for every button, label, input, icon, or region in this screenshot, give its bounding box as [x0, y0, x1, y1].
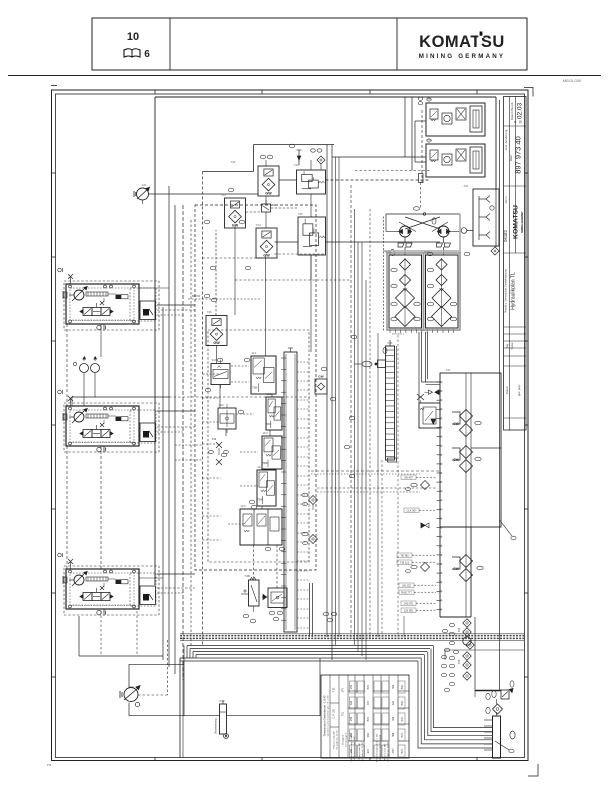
thermostat valve TV — [417, 390, 439, 403]
drawing frame outer — [51, 86, 528, 761]
svg-text:B7C: B7C — [367, 716, 370, 721]
vertical right trunk — [475, 100, 500, 704]
pilot valve small =1 — [262, 200, 277, 216]
bucket cylinder assembly A3 directional valve — [80, 583, 113, 601]
main spool section S4 — [257, 470, 276, 506]
svg-text:Norm: Norm — [504, 196, 508, 204]
svg-text:CLP 100: CLP 100 — [333, 709, 336, 719]
svg-text:GW: GW — [263, 254, 270, 258]
arm cylinder assembly A2 boundary — [64, 403, 159, 452]
svg-text:10.4: 10.4 — [257, 465, 263, 469]
title block revision text — [504, 102, 524, 151]
svg-text:Hydraulikplan TL: Hydraulikplan TL — [511, 272, 517, 310]
return filter F4 — [206, 316, 227, 346]
arm cylinder assembly A2 drain symbol — [97, 447, 106, 453]
coupling drain diamond — [491, 247, 499, 255]
table cell texts — [350, 684, 404, 762]
main pump P1 — [134, 187, 150, 204]
svg-text:4.01: 4.01 — [141, 183, 147, 187]
svg-text:S6C: S6C — [367, 732, 370, 737]
main schematic boundary — [155, 97, 496, 645]
svg-text:RUE 777: RUE 777 — [401, 591, 412, 595]
svg-text:a51 grade teh. 74 150: a51 grade teh. 74 150 — [387, 741, 390, 761]
control block inner dashed boundary — [208, 330, 309, 562]
svg-text:MB/KW: MB/KW — [192, 295, 201, 298]
vertical manifold bus — [281, 348, 297, 632]
pressure control valve V2 — [298, 217, 326, 255]
svg-text:5.01: 5.01 — [385, 250, 391, 254]
svg-text:10.2: 10.2 — [266, 392, 272, 396]
filler breather diamond — [486, 693, 503, 714]
svg-text:B7C: B7C — [401, 748, 404, 753]
svg-text:10: 10 — [127, 31, 139, 43]
svg-text:sector fan spec eng. T 840: sector fan spec eng. T 840 — [353, 735, 356, 759]
check valve D1 — [302, 493, 318, 510]
oil specification table — [321, 675, 409, 758]
boom cylinder assembly A1 pilot actuator — [130, 288, 156, 321]
svg-text:A5H: A5H — [392, 748, 395, 753]
breather valve — [492, 681, 514, 699]
svg-text:GW: GW — [453, 458, 459, 462]
svg-text:MB15-050: MB15-050 — [563, 78, 582, 83]
return filter F2 — [225, 198, 246, 228]
book icon with 6 — [124, 49, 150, 60]
fan section boundary — [383, 214, 460, 332]
title block — [504, 97, 527, 431]
svg-text:2.02: 2.02 — [426, 138, 432, 142]
pilot reducing valve PR1 — [211, 360, 230, 389]
bucket cylinder assembly A3 boundary — [64, 566, 159, 615]
arm cylinder assembly A2 main block — [66, 406, 139, 446]
svg-text:GW: GW — [265, 192, 272, 196]
hatched pipe band — [180, 634, 524, 641]
boom cylinder assembly A1 cylinder bar — [86, 292, 128, 299]
svg-text:GW: GW — [213, 341, 220, 345]
check valve D2 — [302, 532, 318, 544]
svg-text:Wkanalyseabelzung -1 040r: Wkanalyseabelzung -1 040r — [350, 734, 353, 761]
control block outer dashed boundary — [195, 205, 316, 570]
pump P1 discharge line — [149, 193, 259, 195]
suction strainer SS2 — [452, 445, 481, 473]
check valve manifold CV2 — [424, 253, 461, 330]
suction strainer SS3 — [452, 554, 483, 582]
svg-text:718 121: 718 121 — [400, 561, 410, 565]
svg-text:B7C: B7C — [367, 684, 370, 689]
svg-text:V46: V46 — [350, 716, 353, 721]
komatsu vertical logo — [503, 205, 524, 242]
svg-text:7.03: 7.03 — [220, 193, 226, 197]
svg-text:GW: GW — [453, 422, 459, 426]
svg-text:B7C: B7C — [401, 732, 404, 737]
svg-text:Pluema mazk SM: Pluema mazk SM — [334, 731, 336, 748]
lines pump groups to left — [332, 110, 430, 209]
check diamond above V1 — [311, 149, 325, 170]
svg-text:TDK: TDK — [262, 461, 267, 465]
svg-text:GW: GW — [232, 224, 239, 228]
assembly2 connection lines — [72, 397, 310, 460]
oil cooler ladder — [386, 340, 397, 462]
title block lower rows — [504, 334, 527, 396]
corner mark bottom right — [47, 763, 538, 776]
boom cylinder assembly A1 drain symbol — [97, 325, 106, 331]
bucket cylinder assembly A3 port label — [58, 553, 63, 557]
arm cylinder assembly A2 port label — [58, 390, 63, 394]
pilot dashed rows — [203, 254, 437, 492]
bucket cylinder assembly A3 lever symbol — [100, 586, 104, 590]
inter-assembly vertical links — [67, 324, 101, 569]
svg-text:Gefolgeerl: Gefolgeerl — [342, 734, 345, 745]
fan motor M2 — [437, 226, 451, 247]
svg-text:897 973 40: 897 973 40 — [514, 136, 523, 174]
svg-text:H68: H68 — [392, 732, 395, 737]
table header texts — [323, 687, 365, 762]
bottom left routing — [129, 640, 320, 716]
svg-text:MINING GERMANY: MINING GERMANY — [419, 53, 506, 60]
svg-text:10.1: 10.1 — [251, 351, 257, 355]
svg-text:Datum Bearb.: Datum Bearb. — [510, 102, 514, 121]
hydraulic tank box — [440, 373, 501, 617]
svg-text:B5C: B5C — [401, 700, 404, 705]
cooler outlet lines — [419, 332, 440, 403]
svg-text:Datum: Datum — [505, 385, 509, 394]
svg-text:7.06: 7.06 — [206, 310, 212, 314]
svg-text:7.05: 7.05 — [297, 212, 303, 216]
svg-text:TM: TM — [47, 763, 52, 767]
main spool section S3 — [262, 436, 282, 469]
main spool section S1 — [251, 356, 276, 394]
assembly1 connection lines — [139, 288, 260, 315]
horizontal lines top area — [216, 160, 440, 316]
svg-text:7.08: 7.08 — [244, 574, 250, 578]
svg-text:Produkt u. Kennzeichen Gewaehr: Produkt u. Kennzeichen Gewaehrleistung — [505, 268, 508, 313]
arm cylinder assembly A2 hand pump — [63, 409, 87, 424]
frame tick marks — [52, 90, 529, 761]
svg-text:Tag: Tag — [505, 343, 509, 348]
tiny annotations — [129, 97, 469, 703]
main spool section S2 — [266, 397, 282, 430]
svg-text:7.02: 7.02 — [293, 163, 299, 167]
centre cluster connector stubs right — [297, 362, 310, 628]
page number 10 — [127, 31, 139, 43]
fan circuit crossover lines — [386, 207, 467, 256]
scattered component labels top — [204, 144, 470, 478]
svg-text:H46: H46 — [392, 716, 395, 721]
svg-text:6: 6 — [144, 49, 150, 60]
boom cylinder assembly A1 boundary — [64, 281, 159, 330]
svg-text:2.01: 2.01 — [426, 97, 432, 101]
tank inlet pins — [437, 381, 442, 610]
bus risers right — [445, 650, 524, 660]
check valve manifold CV1 — [387, 253, 424, 330]
svg-text:Temperatur Hydraulik OL -1 040: Temperatur Hydraulik OL -1 040 — [376, 733, 379, 762]
svg-text:MINING GERMANY: MINING GERMANY — [521, 211, 524, 233]
main spool section S5 — [240, 509, 282, 545]
svg-text:8.02: 8.02 — [219, 699, 225, 703]
boom cylinder assembly A1 main block — [66, 284, 139, 324]
bucket cylinder assembly A3 cylinder bar — [86, 577, 128, 584]
svg-text:9.02: 9.02 — [218, 403, 224, 407]
fan pump group FP2 — [426, 139, 485, 177]
svg-text:10.5: 10.5 — [240, 504, 246, 508]
suction strainer SS1 — [452, 409, 481, 437]
svg-text:CLK 907: CLK 907 — [406, 509, 417, 513]
svg-text:TDK: TDK — [257, 498, 262, 502]
boom cylinder assembly A1 port label — [58, 268, 63, 272]
KOMATSU logo — [419, 32, 506, 61]
svg-text:T01: T01 — [342, 711, 345, 716]
svg-text:10.3: 10.3 — [262, 431, 268, 435]
centre cluster connector stubs left — [203, 366, 259, 540]
quick coupling box — [473, 189, 499, 246]
svg-text:S15: S15 — [458, 659, 461, 664]
bottom bus lines — [187, 646, 493, 749]
svg-text:3.01: 3.01 — [463, 184, 469, 188]
arm cylinder assembly A2 vent valve — [68, 396, 73, 406]
return filter F1 — [258, 166, 279, 196]
long pilot dashed line — [311, 471, 440, 474]
bucket cylinder assembly A3 drain symbol — [97, 610, 106, 616]
svg-text:B6C: B6C — [401, 684, 404, 689]
svg-text:Pluema mazk SM: Pluema mazk SM — [385, 744, 387, 760]
svg-text:S4C: S4C — [401, 716, 404, 721]
bypass valve GW5 — [315, 375, 327, 395]
svg-text:gez. gepr.: gez. gepr. — [517, 384, 521, 397]
accumulator ACC — [214, 700, 229, 738]
transfer pump P2 — [120, 686, 140, 707]
svg-text:TDK: TDK — [252, 385, 257, 389]
svg-text:126 981: 126 981 — [404, 609, 414, 613]
svg-text:high ae51 temperature t angl: high ae51 temperature t angl — [379, 735, 382, 761]
assembly3 connection lines — [139, 574, 195, 593]
tank port labels — [397, 475, 436, 613]
bucket cylinder assembly A3 pilot actuator — [130, 573, 156, 606]
arm cylinder assembly A2 pilot actuator — [130, 410, 156, 443]
header box — [92, 18, 527, 70]
svg-text:7.01: 7.01 — [230, 160, 236, 164]
svg-text:KOMATSU: KOMATSU — [513, 205, 520, 239]
svg-text:GW: GW — [318, 375, 323, 379]
chain labels — [441, 623, 461, 692]
svg-text:a: a — [513, 121, 517, 123]
manifold bottom ports — [390, 330, 454, 336]
twin gauge circles — [73, 357, 99, 373]
return filter tower — [484, 712, 515, 758]
table enclosure box — [180, 658, 421, 758]
svg-text:A22: A22 — [392, 700, 395, 705]
fan motor M1 — [398, 226, 412, 247]
svg-text:1.01: 1.01 — [445, 368, 451, 372]
header rule — [8, 76, 601, 84]
section interconnect verticals — [220, 385, 277, 589]
svg-text:JAS 871: JAS 871 — [404, 602, 414, 606]
filter drop lines — [217, 255, 312, 364]
svg-text:KOMATSU: KOMATSU — [419, 33, 505, 51]
boom cylinder assembly A1 vent valve — [68, 274, 73, 284]
svg-text:02.03: 02.03 — [517, 102, 524, 119]
tank midline diamonds — [406, 481, 430, 573]
breather feed line — [475, 690, 501, 692]
tank internal line — [465, 373, 467, 617]
svg-text:Zust. Aenderung: Zust. Aenderung — [504, 129, 508, 150]
fan pump group FP1 — [426, 98, 485, 136]
drawing number — [504, 136, 523, 203]
svg-text:6.01: 6.01 — [387, 341, 393, 345]
svg-text:SP1: SP1 — [342, 687, 345, 692]
svg-text:06182: 06182 — [503, 230, 508, 242]
svg-text:5.02: 5.02 — [424, 250, 430, 254]
svg-text:Name: Name — [510, 342, 514, 349]
boom cylinder assembly A1 hand pump — [63, 287, 87, 302]
bucket cylinder assembly A3 hand pump — [63, 572, 87, 587]
svg-text:K13: K13 — [212, 438, 217, 441]
svg-text:SN 123: SN 123 — [402, 584, 411, 588]
boom cylinder assembly A1 directional valve — [80, 298, 113, 316]
svg-text:T 32: T 32 — [333, 687, 336, 692]
svg-text:Temperatur Getriebeoel -1 040: Temperatur Getriebeoel -1 040 — [323, 695, 327, 736]
boom cylinder assembly A1 lever symbol — [100, 301, 104, 305]
svg-text:SN 457: SN 457 — [404, 476, 413, 480]
svg-text:anbindung gera: anbindung gera — [346, 732, 348, 747]
assembly corridor bottom — [79, 616, 163, 656]
pump group supply verticals — [405, 97, 423, 171]
svg-text:A32: A32 — [350, 700, 353, 705]
cooler bypass valve block — [419, 403, 440, 428]
svg-text:V22: V22 — [350, 684, 353, 689]
svg-text:B15: B15 — [458, 627, 461, 632]
relief valve drain arrow — [297, 150, 302, 165]
fan to coupling link — [467, 230, 473, 232]
arm cylinder assembly A2 lever symbol — [100, 423, 104, 427]
arm cylinder assembly A2 directional valve — [80, 420, 113, 438]
svg-text:67C: 67C — [367, 749, 370, 754]
svg-text:V3K: V3K — [350, 748, 353, 753]
return filter F3 — [256, 228, 277, 258]
svg-text:Bezeichnung: Bezeichnung — [214, 718, 218, 734]
svg-text:4011 0551 2: 4011 0551 2 — [392, 334, 405, 336]
svg-text:V68: V68 — [350, 732, 353, 737]
svg-text:Pluema mazk SM: Pluema mazk SM — [359, 743, 361, 760]
svg-text:47C: 47C — [367, 701, 370, 706]
svg-text:bl: bl — [519, 120, 523, 123]
arm cylinder assembly A2 cylinder bar — [86, 414, 128, 421]
bucket cylinder assembly A3 main block — [66, 569, 139, 609]
corner mark top right — [524, 88, 533, 97]
svg-text:9.01: 9.01 — [211, 358, 217, 362]
svg-text:TDK: TDK — [266, 422, 271, 426]
svg-text:TB 780: TB 780 — [400, 554, 409, 558]
pressure control valve V1 — [297, 170, 326, 194]
vertical trunk lines left bundle — [163, 186, 191, 680]
control block bottom risers — [310, 583, 313, 637]
gauge isolator valves — [209, 438, 229, 465]
A3 drain links — [101, 611, 137, 656]
svg-text:napravlenie pump shock flexer: napravlenie pump shock flexer gear a E -… — [328, 694, 330, 736]
svg-text:H23: H23 — [392, 684, 395, 689]
svg-text:Blatt: Blatt — [509, 155, 513, 161]
svg-text:GW: GW — [453, 567, 459, 571]
vertical trunk lines centre bundle — [327, 145, 404, 661]
bucket cylinder assembly A3 vent valve — [68, 559, 73, 569]
svg-text:7.04: 7.04 — [255, 223, 261, 227]
pointer line tank label — [500, 520, 517, 540]
pilot reducing valve PR2 — [218, 404, 236, 433]
pilot check block 7.09 — [262, 588, 287, 608]
drain coupling chain — [463, 619, 474, 680]
cooler inlet gauge — [355, 347, 388, 367]
svg-text:a51 grade teh. 74 150: a51 grade teh. 74 150 — [361, 741, 364, 761]
cluster labels — [243, 500, 337, 623]
title text Hydraulikplan TL — [505, 268, 517, 313]
table boxed cells — [350, 681, 406, 757]
pilot shutoff valve 7.08 — [241, 574, 259, 612]
svg-text:a51 grade teh. 74 150: a51 grade teh. 74 150 — [336, 729, 339, 749]
